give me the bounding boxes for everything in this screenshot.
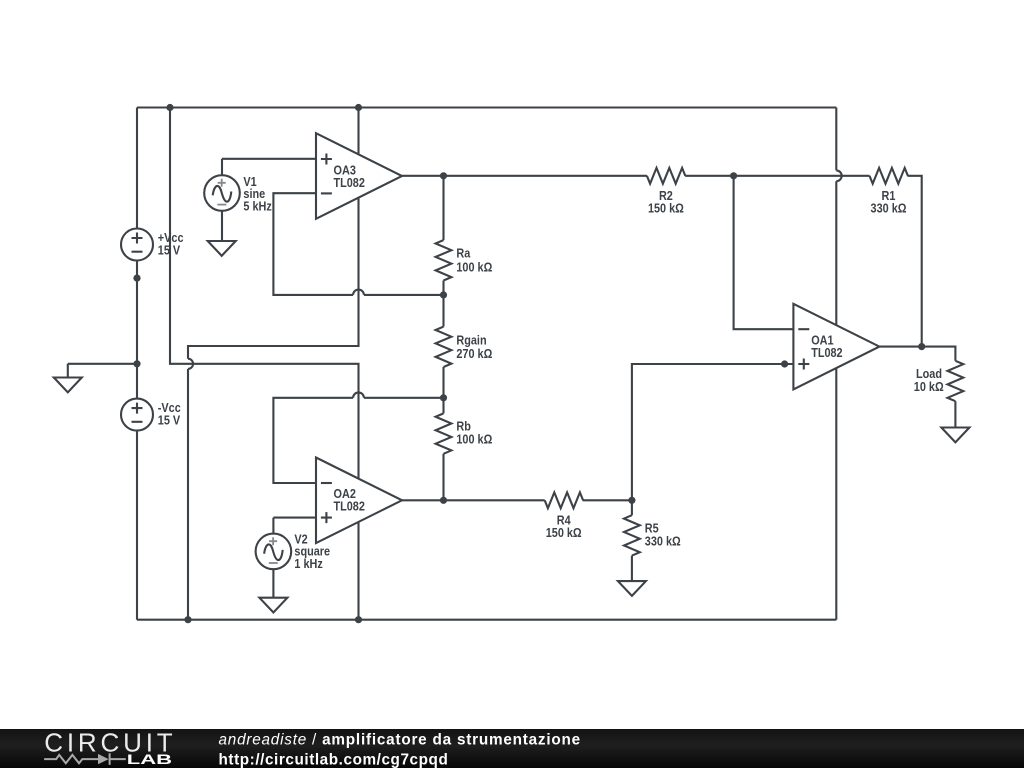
resistor Rgain 270k body	[436, 327, 452, 367]
junction node R2 / OA1 minus	[730, 172, 737, 179]
wire R4 node to OA1 plus	[632, 364, 794, 500]
svg-text:Ra: Ra	[456, 246, 471, 260]
wire V2 leads	[272, 518, 274, 598]
wire bottom -Vcc rail	[137, 619, 836, 621]
svg-text:LAB: LAB	[127, 751, 172, 767]
wire OA3 feedback loop	[273, 193, 443, 295]
wire ground arm left	[68, 363, 137, 365]
svg-text:150 kΩ: 150 kΩ	[546, 526, 582, 540]
wire Load lead to ground	[954, 401, 956, 427]
source V2 square	[256, 534, 292, 570]
svg-text:TL082: TL082	[811, 346, 842, 360]
svg-text:1 kHz: 1 kHz	[294, 557, 322, 571]
wire OA3 output to R2	[402, 175, 647, 177]
junction node +Vcc minus lead	[133, 275, 140, 282]
svg-text:15 V: 15 V	[158, 413, 181, 427]
resistor R1 330k body	[870, 168, 908, 184]
wire R4 to R5 node	[583, 499, 632, 501]
CircuitLab logo squiggle	[44, 753, 126, 765]
wire OA3 V- to -rail	[188, 108, 359, 620]
svg-text:TL082: TL082	[334, 499, 365, 513]
svg-text:150 kΩ: 150 kΩ	[648, 202, 684, 216]
ground GND under Load	[941, 428, 969, 443]
ground GND under V1	[208, 241, 236, 256]
op-amp OA1 TL082	[793, 304, 879, 390]
wire R2 node to OA1 minus	[734, 176, 794, 329]
hop arc of OA3 feedback wire over supply column	[353, 289, 364, 294]
hop arc of OA1 power column over R2-R1 wire	[836, 170, 841, 181]
resistor R5 330k body	[624, 515, 640, 555]
wire R5 leads	[631, 500, 633, 581]
wire Rgain leads	[442, 295, 444, 398]
wire OA1 power column	[835, 108, 837, 620]
wire top +Vcc rail	[137, 106, 836, 108]
junction node Ra / Rgain / feedback	[440, 291, 447, 298]
svg-text:R5: R5	[645, 521, 659, 535]
resistor Load 10k body	[948, 361, 964, 401]
svg-text:15 V: 15 V	[158, 243, 181, 257]
source +Vcc 15V	[121, 229, 153, 261]
svg-text:TL082: TL082	[334, 176, 365, 190]
junction node OA3 output	[440, 172, 447, 179]
svg-text:100 kΩ: 100 kΩ	[456, 260, 492, 274]
junction node top rail / OA3 supply	[355, 104, 362, 111]
wire Ra leads	[442, 176, 444, 295]
op-amp OA3 TL082	[316, 133, 402, 219]
junction node OA1 output / R1	[918, 343, 925, 350]
svg-text:Rb: Rb	[456, 420, 471, 434]
junction node R4 / R5 / OA1 plus	[628, 497, 635, 504]
resistor R4 150k body	[545, 492, 583, 508]
op-amp OA2 TL082	[316, 458, 402, 544]
wire Rb leads	[442, 398, 444, 501]
junction node OA2 output	[440, 497, 447, 504]
wire V1 to OA3 plus	[222, 158, 316, 160]
svg-text:330 kΩ: 330 kΩ	[871, 202, 907, 216]
junction node bottom rail / OA2 V-	[355, 616, 362, 623]
resistor R2 150k body	[647, 168, 685, 184]
source -Vcc 15V	[121, 399, 153, 431]
resistor Rb 100k body	[436, 413, 452, 453]
ground GND under R5	[618, 581, 646, 596]
wire V2 to OA2 plus	[273, 517, 316, 519]
svg-text:330 kΩ: 330 kΩ	[645, 534, 681, 548]
svg-text:Rgain: Rgain	[456, 334, 486, 348]
ground GND left	[54, 364, 82, 393]
wire left supply column	[136, 108, 138, 620]
wire OA2 feedback loop	[273, 398, 443, 483]
svg-text:5 kHz: 5 kHz	[243, 199, 271, 213]
svg-text:Load: Load	[916, 367, 942, 381]
source V1 sine	[204, 175, 240, 211]
junction node Rgain / Rb / OA2 feedback	[440, 394, 447, 401]
footer bar	[0, 729, 1024, 768]
svg-text:andreadiste / amplificatore da: andreadiste / amplificatore da strumenta…	[219, 732, 581, 749]
wire R2 to R1	[685, 175, 869, 177]
wire V1 leads	[221, 159, 223, 241]
svg-text:100 kΩ: 100 kΩ	[456, 433, 492, 447]
hop arc of OA2 feedback wire over supply column	[353, 392, 364, 397]
wire OA2 output to R4	[402, 499, 545, 501]
junction node top rail / OA2 supply	[166, 104, 173, 111]
svg-text:270 kΩ: 270 kΩ	[456, 347, 492, 361]
junction node OA1 plus pin	[781, 360, 788, 367]
wire R1 to OA1 output column	[908, 176, 922, 347]
hop arc of OA3 V- wire over ground-row wire	[188, 359, 193, 369]
wire +rail to OA2 V+	[170, 108, 359, 620]
svg-text:http://circuitlab.com/cg7cpqd: http://circuitlab.com/cg7cpqd	[219, 751, 449, 768]
wire OA1 output to Load	[879, 347, 955, 361]
svg-text:10 kΩ: 10 kΩ	[914, 380, 944, 394]
junction node ground / supplies	[133, 360, 140, 367]
junction node bottom rail / OA3 V-	[184, 616, 191, 623]
ground GND under V2	[259, 598, 287, 613]
resistor Ra 100k body	[436, 240, 452, 280]
